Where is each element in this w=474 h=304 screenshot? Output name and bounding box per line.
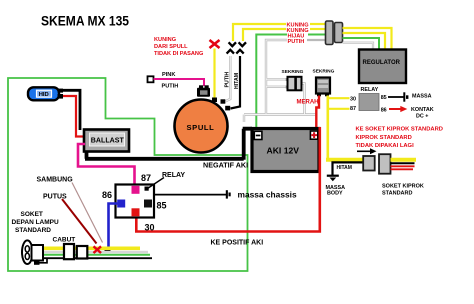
bundle white wire [42,251,148,253]
X mark putus [94,246,102,253]
svg-text:86: 86 [102,190,112,200]
label 85 [157,201,167,211]
relay bottom box [116,185,155,218]
svg-text:KE POSITIF AKI: KE POSITIF AKI [211,240,264,247]
connector block 1 [326,21,334,45]
bundle yellow wire [42,247,140,251]
connector pink square [148,76,154,82]
wire red from HID to ballast [60,96,85,137]
label 86 [102,190,112,200]
label PUTIH [162,84,179,90]
label SAMBUNG [37,177,74,184]
cabut connector 2 [77,246,88,259]
bundle black wire [42,257,152,259]
label CABUT [53,237,76,244]
ground massa body [327,175,339,182]
wire green loop net [8,78,248,271]
svg-text:HITAM: HITAM [234,73,240,89]
wire kuning 2 to regulator [343,33,386,50]
label pin 30 [350,97,356,103]
wires right of kiprok connector [391,160,417,170]
label pin 86 [381,108,387,114]
label RELAY bottom [162,172,185,179]
relay pin 85 black [144,200,152,208]
bundle green wire [42,254,150,256]
relay top box [359,94,379,111]
node spull hitam dot [225,106,230,111]
svg-text:SOKET KIPROK: SOKET KIPROK [382,184,424,190]
arrow to kiprok socket [357,148,377,154]
svg-text:30: 30 [350,97,356,103]
svg-text:STANDARD: STANDARD [382,191,412,197]
label KE SOKET KIPROK STANDARD [356,127,444,150]
wire black negative from ballast to battery [85,129,252,160]
regulator [359,50,406,84]
wire putih white net [244,40,316,122]
svg-text:85: 85 [157,201,167,211]
svg-text:30: 30 [145,223,155,233]
battery AKI 12V [252,129,319,172]
headlamp socket oval [22,240,33,264]
svg-text:CABUT: CABUT [53,237,76,244]
wire black from HID to ballast [60,90,80,130]
svg-text:BODY: BODY [327,191,343,197]
fuse 2 [316,78,330,97]
node spull yellow dot [212,98,217,103]
svg-text:RELAY: RELAY [361,87,379,93]
X mark not connected [210,40,220,48]
svg-text:DARI SPULL: DARI SPULL [154,44,188,50]
svg-text:DEPAN LAMPU: DEPAN LAMPU [12,219,59,226]
wire stubs labels to connector [307,24,326,40]
relay pin 86 blue [117,200,125,208]
label HITAM vertical [234,73,240,89]
wire kuning 1 [233,24,286,41]
label MASSA [412,94,432,100]
svg-text:REGULATOR: REGULATOR [363,60,401,66]
label SEKRING 2 [313,69,335,75]
svg-text:87: 87 [350,106,356,112]
svg-text:HID: HID [39,92,49,98]
label 30 [145,223,155,233]
label RELAY top [361,87,379,93]
relay pin 87 magenta [132,186,140,194]
label KONTAK DC + [411,107,434,119]
node spull putih dot [221,99,226,103]
svg-text:SAMBUNG: SAMBUNG [37,177,74,184]
wire hijau to regulator [343,38,380,50]
svg-text:HITAM: HITAM [337,165,352,171]
kiprok connector 1 [363,156,375,171]
connector block 2 [335,23,343,43]
svg-text:85: 85 [381,95,387,101]
wire yellow net fuse to relay and kiprok [326,96,364,160]
spull [175,100,228,153]
label PUTUS [43,194,67,201]
arrow down kuning 2 [239,42,246,46]
arrow up hitam [236,50,243,54]
ballast [84,130,129,152]
wire red merah fuse to battery plus [316,96,319,129]
svg-text:RELAY: RELAY [162,172,185,179]
svg-text:NEGATIF AKI: NEGATIF AKI [203,161,248,170]
wire kuning 2 [243,29,286,41]
arrow up putih [227,50,234,54]
headlamp ground tab [34,259,47,265]
svg-text:TIDAK DIPAKAI LAGI: TIDAK DIPAKAI LAGI [356,143,415,149]
svg-text:KUNING: KUNING [154,37,176,43]
label NEGATIF AKI [203,161,248,170]
label SOKET DEPAN LAMPU STANDARD [12,211,59,234]
svg-text:PUTIH: PUTIH [288,39,305,45]
headlamp housing [32,245,44,261]
svg-text:KONTAK: KONTAK [411,107,434,113]
label PINK [162,72,175,78]
svg-text:86: 86 [381,108,387,114]
label pin 87 [350,106,356,112]
svg-text:SKEMA MX 135: SKEMA MX 135 [41,13,129,29]
lamp HID [28,87,63,100]
svg-text:BALLAST: BALLAST [91,135,124,144]
wire putih to regulator [343,43,374,50]
igniter on spull [197,85,210,97]
wire yellow from X to spull [213,49,215,99]
label MASSA BODY [326,185,346,197]
svg-text:KE SOKET KIPROK STANDARD: KE SOKET KIPROK STANDARD [356,127,444,133]
svg-text:AKI 12V: AKI 12V [267,146,300,156]
arrow kontak 86 [389,106,407,112]
node blue dot [105,247,111,252]
wire magenta ballast to relay pin 87 [78,144,135,188]
label HITAM [337,165,352,171]
label MERAH [297,100,319,106]
wire hitam from arrow to spull [231,56,241,109]
wire red ke positif aki [136,127,319,232]
svg-text:MERAH: MERAH [297,100,319,106]
svg-text:SOKET: SOKET [21,211,43,218]
wire massa 85 [388,92,408,101]
label SOKET KIPROK STANDARD [382,184,424,197]
label KE POSITIF AKI [211,240,264,247]
svg-text:SEKRING: SEKRING [313,69,335,75]
title SKEMA MX 135 [41,13,129,29]
label pin 85 [381,95,387,101]
relay pin 30 red [132,208,140,216]
svg-text:PINK: PINK [162,72,175,78]
label KUNING DARI SPULL TIDAK DI PASANG [154,37,203,57]
svg-text:PUTIH: PUTIH [224,72,230,88]
pointer putus [62,199,97,244]
wire blue 86 to bundle [109,204,118,248]
svg-text:TIDAK DI PASANG: TIDAK DI PASANG [154,51,203,57]
svg-text:87: 87 [141,173,151,183]
svg-text:MASSA: MASSA [412,94,432,100]
label KUNING KUNING HIJAU PUTIH [287,23,309,45]
wire hitam kiprok ground [333,162,364,175]
kiprok connector 2 [379,154,391,174]
cabut connector 1 [64,244,74,259]
svg-text:KIPROK STANDARD: KIPROK STANDARD [356,135,412,141]
wire massa chassis from relay 85 [148,190,231,199]
wire hijau to battery top [256,35,287,128]
svg-text:PUTIH: PUTIH [162,84,179,90]
wire putih from arrow to spull [225,56,230,102]
pointer relay [145,178,165,191]
label PUTIH vertical [224,72,230,88]
label massa chassis [238,189,297,199]
label 87 [141,173,151,183]
svg-text:SEKRING: SEKRING [282,69,304,75]
label SEKRING 1 [282,69,304,75]
wire kuning 1 to regulator [343,28,392,50]
svg-text:STANDARD: STANDARD [15,227,51,234]
arrow down kuning 1 [229,42,236,46]
fuse 1 [286,77,302,91]
svg-text:massa chassis: massa chassis [238,189,297,199]
svg-text:DC +: DC + [416,113,428,119]
pointer sambung [72,183,103,243]
svg-text:SPULL: SPULL [187,123,215,132]
wire pink to igniter [154,79,205,86]
